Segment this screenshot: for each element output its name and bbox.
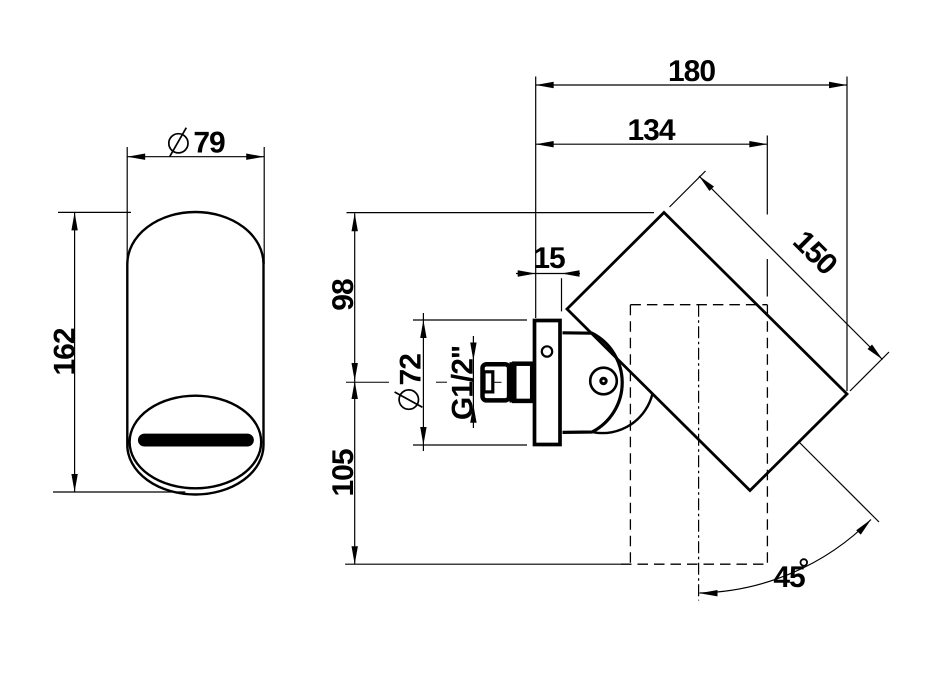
right view: bracket arc	[594, 393, 653, 433]
dim 180: dimension line	[536, 84, 847, 86]
dim 79: extension lines	[126, 147, 128, 264]
left view: slot bar	[144, 434, 247, 447]
dim 162: dimension line	[74, 212, 76, 492]
dim 180: extension lines	[535, 77, 537, 319]
dim 162: extension ticks	[58, 211, 131, 213]
dim 72: diameter symbol	[399, 390, 418, 409]
dim 134: extension line (two segments)	[766, 136, 768, 215]
dim 150: extension lines	[670, 171, 706, 207]
right view: pivot inner dot	[599, 377, 607, 385]
right view: nipple inner socket	[484, 372, 493, 392]
svg-text:180: 180	[668, 55, 715, 88]
dim 105: bottom extension line	[345, 563, 621, 565]
dim 134: dimension line	[536, 143, 768, 145]
dim 15: dimension line	[516, 273, 580, 275]
right view: rotated cylinder rectangle	[567, 213, 847, 491]
dim 15: extension line right	[561, 278, 563, 311]
dim 79: dimension line	[127, 156, 264, 158]
dim G1/2: dimension line	[472, 336, 474, 428]
right view: nipple cap	[483, 364, 510, 400]
svg-text:79: 79	[193, 126, 225, 159]
svg-text:98: 98	[327, 279, 360, 311]
svg-text:162: 162	[49, 328, 82, 375]
right view: nipple centerline tick	[494, 381, 502, 383]
dim 98: top extension tick	[347, 212, 655, 214]
center dash-dot line	[698, 305, 700, 601]
svg-text:G1/2": G1/2"	[447, 346, 480, 420]
right view: plate screw hole	[542, 346, 552, 356]
svg-text:134: 134	[627, 114, 675, 147]
left view: bottom opening ellipse	[130, 396, 262, 489]
dim 98/105: dimension line	[354, 213, 356, 564]
degree symbol	[801, 559, 808, 566]
45 degree arc	[700, 520, 872, 594]
right view: nipple junction band	[510, 362, 517, 402]
left view: cylinder body profile	[127, 212, 263, 495]
right view: ball joint	[563, 333, 623, 433]
svg-text:72: 72	[395, 354, 428, 386]
dim 150: dimension line	[699, 176, 883, 360]
right view: inlet nipple right segment	[514, 364, 532, 401]
svg-text:15: 15	[533, 242, 565, 275]
svg-text:105: 105	[327, 449, 360, 496]
dim 79: diameter symbol	[169, 134, 188, 153]
right view: wall plate	[535, 321, 561, 445]
centerline ticks at fixture axis	[346, 381, 389, 383]
svg-text:45: 45	[773, 561, 805, 594]
dim 72: extension ticks	[413, 319, 527, 321]
dim 72: dimension line	[422, 313, 424, 451]
right view: pivot outer circle	[590, 368, 617, 395]
dashed projection box	[629, 305, 631, 565]
axis extension line 45 deg	[799, 442, 880, 523]
